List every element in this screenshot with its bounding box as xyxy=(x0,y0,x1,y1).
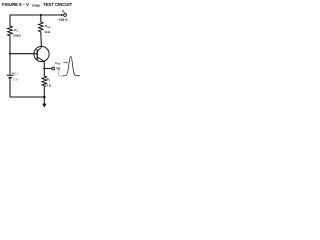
resistor RD xyxy=(39,22,44,32)
ground down arrow xyxy=(43,97,45,104)
leader arrow to terminal xyxy=(59,70,63,77)
wire source xyxy=(43,61,45,76)
wire top rail xyxy=(10,14,63,16)
transistor Q1 collector line xyxy=(37,47,41,51)
node source junction xyxy=(43,67,45,69)
svg-text:VGS: VGS xyxy=(55,61,61,66)
svg-text:0.2–: 0.2– xyxy=(13,77,19,81)
svg-text:RGS: RGS xyxy=(45,24,51,29)
svg-text:GS(th): GS(th) xyxy=(32,4,40,8)
svg-text:FIGURE 8 – V: FIGURE 8 – V xyxy=(2,2,29,7)
terminal V1 circle xyxy=(64,14,67,17)
wire bottom rail xyxy=(10,96,45,98)
svg-text:50 Ω: 50 Ω xyxy=(45,83,52,87)
battery B1 plate short xyxy=(8,77,12,79)
wire gate xyxy=(10,53,37,55)
waveform pulse xyxy=(63,56,80,75)
svg-text:1kΩ: 1kΩ xyxy=(44,30,50,34)
battery plus sign xyxy=(12,72,14,74)
battery B1 plate long xyxy=(7,74,14,76)
svg-text:R1: R1 xyxy=(14,28,18,33)
svg-text:50kΩ: 50kΩ xyxy=(13,33,21,37)
wire left rail upper xyxy=(9,15,11,27)
resistor RS xyxy=(42,76,47,86)
terminal output circle xyxy=(52,67,55,70)
node gate junction xyxy=(9,53,11,55)
resistor R1 xyxy=(8,26,13,36)
title FIGURE 8 - VGS(th) TEST CIRCUIT xyxy=(2,2,72,8)
svg-text:+25 V: +25 V xyxy=(59,18,69,22)
terminal V1 arrowhead xyxy=(61,14,63,16)
transistor Q1 bar xyxy=(36,49,38,59)
svg-text:TEST CIRCUIT: TEST CIRCUIT xyxy=(43,2,72,7)
wire drain upper xyxy=(40,15,42,22)
transistor Q1 envelope xyxy=(34,46,49,61)
wire left rail middle xyxy=(9,36,11,75)
node bottom junction xyxy=(43,96,46,99)
node top junction xyxy=(40,14,42,16)
wire left rail lower xyxy=(9,78,11,97)
svg-text:RS: RS xyxy=(47,77,51,82)
transistor Q1 emitter line xyxy=(37,57,44,61)
wire output tap xyxy=(44,68,52,70)
wire drain lower xyxy=(40,32,43,47)
wire source lower xyxy=(43,86,45,97)
leader arrow to waveform level xyxy=(63,62,66,64)
svg-text:0.1: 0.1 xyxy=(15,71,19,75)
